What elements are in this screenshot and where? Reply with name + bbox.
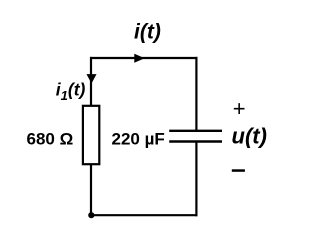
wire left vertical lower segment (resistor to bottom node) <box>90 164 92 215</box>
wire top (left node to right node) <box>90 57 198 59</box>
wire right vertical upper segment (top node to capacitor) <box>195 57 197 131</box>
resistor R 680 ohm (rectangle body) <box>83 106 99 164</box>
wire bottom <box>91 214 198 216</box>
svg-text:680 Ω: 680 Ω <box>27 130 74 149</box>
wire right vertical lower segment (capacitor to bottom wire) <box>195 142 197 217</box>
arrowhead current i1(t) pointing down on left wire <box>87 75 95 83</box>
capacitor C 220 uF bottom plate <box>169 140 222 142</box>
svg-text:+: + <box>233 96 246 121</box>
label - polarity of u(t) <box>232 169 245 172</box>
arrowhead current i(t) pointing right on top wire <box>135 54 144 62</box>
svg-text:u(t): u(t) <box>232 124 267 149</box>
svg-text:i(t): i(t) <box>134 20 161 43</box>
svg-text:220 µF: 220 µF <box>112 130 165 149</box>
capacitor C 220 uF top plate <box>169 130 222 132</box>
junction dot bottom-left node <box>88 212 94 218</box>
wire left vertical upper segment <box>90 57 92 105</box>
